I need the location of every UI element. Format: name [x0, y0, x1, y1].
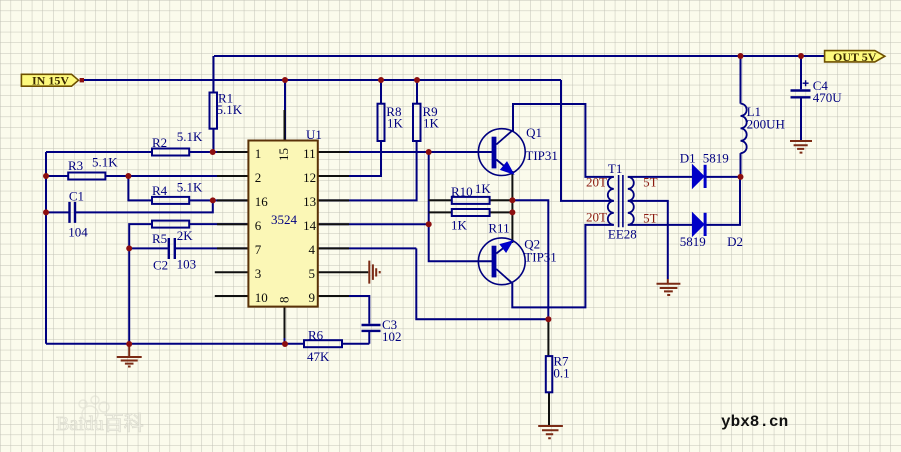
wire top rail y56	[214, 55, 825, 57]
diode D2 5819	[692, 213, 704, 236]
svg-text:5: 5	[309, 266, 316, 281]
svg-text:5.1K: 5.1K	[92, 155, 118, 170]
svg-text:12: 12	[303, 170, 316, 185]
wire left rail	[45, 152, 47, 344]
wire pin2 row / R3	[46, 175, 318, 177]
wire secondary mid to ground	[628, 201, 668, 279]
svg-text:10: 10	[255, 290, 268, 305]
wire secondary top to D1	[628, 176, 693, 178]
wire pin9 to C3	[318, 296, 369, 344]
U1 left pin stubs	[217, 152, 248, 248]
resistor R5 2K	[152, 221, 189, 228]
U1 pin numbers	[255, 146, 317, 305]
wire D2 cathode up	[706, 177, 740, 225]
wire D1 cathode to node	[706, 176, 740, 178]
svg-text:5819: 5819	[680, 234, 706, 249]
svg-text:1K: 1K	[451, 218, 468, 233]
wire U1 pin8 drop	[284, 307, 286, 344]
wire R9 leads + pin13 run	[318, 80, 417, 200]
svg-text:5.1K: 5.1K	[177, 180, 203, 195]
pin 5 stub to ground	[318, 271, 369, 273]
svg-text:0.1: 0.1	[553, 366, 569, 381]
wire secondary bottom to D2	[628, 224, 693, 226]
svg-text:R3: R3	[68, 158, 83, 173]
capacitor C1 104	[70, 202, 76, 223]
svg-text:OUT 5V: OUT 5V	[833, 50, 877, 64]
svg-text:R2: R2	[152, 135, 167, 150]
svg-text:C1: C1	[69, 189, 84, 204]
svg-text:Q1: Q1	[526, 125, 542, 140]
wire ground rail	[46, 343, 369, 345]
svg-text:C2: C2	[153, 258, 168, 273]
svg-text:R6: R6	[308, 328, 324, 343]
capacitor C2 103	[169, 238, 175, 259]
svg-text:470U: 470U	[813, 90, 843, 105]
svg-text:ybx8.cn: ybx8.cn	[721, 413, 788, 431]
svg-text:3: 3	[255, 266, 262, 281]
svg-text:T1: T1	[608, 161, 622, 176]
R7 leads	[547, 319, 550, 426]
R10 R11 leads	[429, 200, 513, 212]
svg-text:3524: 3524	[271, 212, 298, 227]
capacitor C3 102	[362, 325, 381, 331]
resistor R8 1K (vertical)	[378, 104, 385, 141]
wire pin7 row / C2	[129, 247, 318, 249]
wire R1 column	[213, 56, 215, 152]
black pin stubs	[215, 110, 549, 426]
svg-text:7: 7	[255, 242, 262, 257]
svg-text:EE28: EE28	[608, 227, 637, 242]
ground (pin 5, rotated)	[369, 261, 379, 284]
capacitor C4 470U polarized	[791, 91, 811, 98]
ground (R7)	[538, 426, 563, 438]
IC U1 3524	[248, 141, 317, 307]
wire R4 branch	[128, 176, 318, 200]
wire Q2 collector loop	[512, 225, 614, 308]
wire pin1 row	[46, 151, 318, 153]
resistor R1 5.1K (vertical)	[210, 93, 218, 129]
power flag OUT 5V	[825, 51, 885, 62]
diode D1 5819	[692, 165, 704, 188]
svg-text:5T: 5T	[643, 175, 658, 190]
svg-text:13: 13	[303, 194, 316, 209]
svg-text:5T: 5T	[643, 211, 658, 226]
svg-text:200UH: 200UH	[747, 117, 785, 132]
svg-text:1K: 1K	[423, 116, 440, 131]
resistor R6 47K	[304, 340, 342, 347]
svg-text:IN 15V: IN 15V	[32, 74, 69, 88]
svg-text:104: 104	[68, 225, 88, 240]
transistor Q1 TIP31	[478, 129, 525, 176]
svg-text:R11: R11	[488, 221, 509, 236]
svg-text:1K: 1K	[475, 181, 492, 196]
svg-text:5.1K: 5.1K	[177, 129, 203, 144]
wire R5 branch	[129, 224, 318, 248]
resistor R11 1K	[452, 209, 490, 216]
svg-text:15: 15	[276, 148, 291, 161]
wire pin4 run to R7 node	[318, 224, 429, 248]
svg-text:8: 8	[277, 297, 292, 304]
wire Q1 collector loop	[513, 104, 614, 177]
svg-text:20T: 20T	[586, 175, 607, 190]
svg-text:R10: R10	[451, 184, 473, 199]
svg-text:4: 4	[309, 242, 316, 257]
svg-text:1: 1	[255, 146, 262, 161]
svg-text:1K: 1K	[387, 116, 404, 131]
power flag IN 15V	[21, 74, 78, 86]
wire IN rail y80	[46, 56, 825, 344]
svg-text:Baidu百科: Baidu百科	[56, 412, 144, 435]
wire C4 column	[800, 56, 802, 89]
emitter column	[511, 171, 513, 243]
svg-text:11: 11	[303, 146, 316, 161]
resistor R2 5.1K	[152, 149, 189, 156]
wire C1 row	[46, 200, 213, 212]
svg-text:20T: 20T	[586, 210, 607, 225]
wire xfmr center tap	[561, 80, 614, 201]
svg-text:5.1K: 5.1K	[217, 102, 243, 117]
wire base column x428.7	[429, 152, 492, 261]
wire R8 leads	[318, 80, 381, 176]
svg-text:TIP31: TIP31	[525, 148, 558, 163]
ground (left rail)	[117, 344, 142, 367]
inductor L1 200UH	[741, 104, 747, 154]
resistor R4 5.1K	[152, 197, 189, 204]
U1 right pin stubs	[318, 152, 349, 296]
svg-text:47K: 47K	[307, 349, 330, 364]
watermark baidu	[79, 396, 109, 422]
wire pin11 / Q1 base	[318, 151, 492, 153]
svg-text:9: 9	[309, 290, 316, 305]
wire L1 column	[740, 56, 742, 177]
svg-text:R4: R4	[152, 183, 168, 198]
svg-text:R5: R5	[152, 231, 167, 246]
ground (transformer secondary)	[657, 279, 681, 295]
wire C2-R5 node drop to ground rail	[128, 248, 130, 343]
transformer T1 EE28	[608, 175, 634, 227]
wire emitter to R7 column	[512, 200, 548, 319]
svg-text:D1: D1	[680, 151, 696, 166]
svg-text:6: 6	[255, 218, 262, 233]
resistor R7 0.1 (vertical)	[546, 356, 553, 392]
svg-text:103: 103	[177, 257, 197, 272]
svg-text:14: 14	[303, 218, 317, 233]
svg-text:TIP31: TIP31	[524, 250, 557, 265]
svg-text:16: 16	[255, 194, 269, 209]
wire U1 pin15 drop	[284, 80, 286, 141]
svg-text:D2: D2	[727, 234, 743, 249]
pin 3 stub	[215, 271, 249, 273]
svg-text:2K: 2K	[177, 228, 194, 243]
transistor Q2 TIP31	[478, 238, 525, 285]
U1 top pin15 / bottom pin8 stubs	[284, 110, 286, 338]
svg-text:2: 2	[255, 170, 262, 185]
pin 10 stub	[215, 295, 249, 297]
ground (C4)	[790, 141, 812, 153]
resistor R3 5.1K	[68, 173, 105, 180]
resistor R9 1K (vertical)	[413, 104, 421, 141]
resistor R10 1K	[452, 197, 490, 204]
svg-text:5819: 5819	[703, 151, 729, 166]
svg-text:U1: U1	[306, 127, 322, 142]
svg-text:102: 102	[382, 329, 402, 344]
